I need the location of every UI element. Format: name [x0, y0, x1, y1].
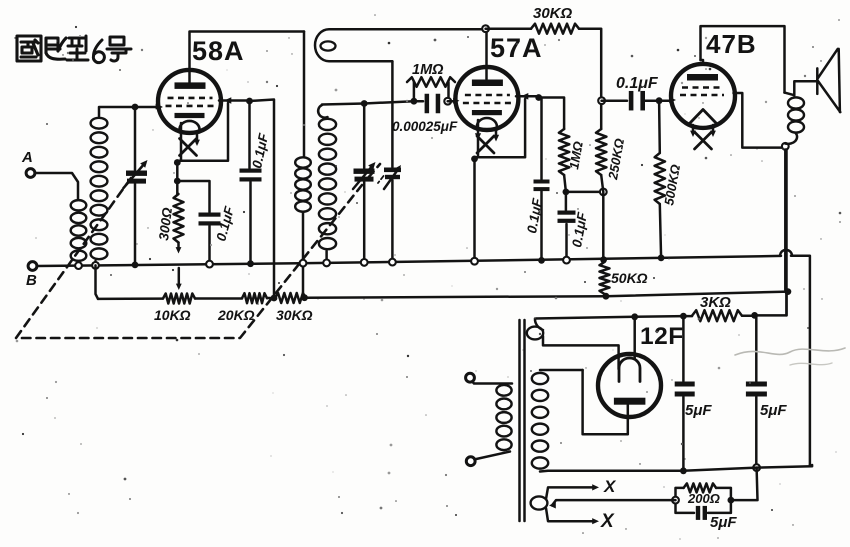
svg-text:B: B: [26, 272, 37, 289]
node 250K bottom: [600, 189, 607, 196]
capacitor 5μF first: [675, 316, 695, 471]
node divider screen: [271, 295, 278, 302]
label 0.00025μF: [392, 119, 458, 134]
resistor 20KΩ: [242, 293, 267, 303]
capacitor 0.1μF cathode: [177, 181, 220, 262]
svg-text:200Ω: 200Ω: [687, 491, 720, 506]
svg-text:12F: 12F: [640, 323, 684, 350]
resistor 10KΩ: [163, 294, 195, 304]
transformer HV secondary: [532, 370, 583, 472]
transformer core: [520, 320, 525, 521]
node divider B+: [785, 288, 792, 295]
57A suppressor box: [475, 99, 526, 157]
node divider 50K: [603, 293, 610, 300]
node filter1: [680, 313, 687, 320]
label 47B: [706, 29, 757, 59]
wire top line: [486, 27, 531, 30]
wire IFT sec top: [322, 104, 364, 105]
wire speaker down: [784, 150, 787, 291]
speaker coil: [785, 93, 805, 144]
bus hop: [780, 250, 792, 256]
node bus ift sec: [323, 260, 330, 267]
trimmer capacitor: [378, 62, 401, 261]
terminal A: [21, 149, 35, 177]
58A plate lead: [190, 32, 305, 83]
node 47B grid: [656, 97, 663, 104]
wire Bminus: [548, 465, 812, 471]
wire RC to 250K bottom: [566, 191, 603, 194]
wire load bottom: [564, 175, 566, 192]
svg-text:3KΩ: 3KΩ: [700, 294, 731, 311]
label 30KΩ div: [276, 307, 313, 323]
57A screen lead: [516, 93, 537, 100]
label 47B box: [701, 26, 785, 93]
node grid leak right: [444, 98, 451, 105]
capacitor 0.00025μF: [425, 94, 441, 114]
svg-text:X: X: [603, 477, 617, 496]
faint pencil squiggle: [735, 348, 845, 365]
label 0.1μF cathode: [213, 204, 237, 243]
node 58A screen: [246, 98, 253, 105]
node bus screen bypass: [247, 260, 254, 267]
node 57A cathode: [471, 156, 478, 163]
node speaker coil: [782, 143, 789, 150]
divider wire: [98, 292, 788, 299]
node bus det cap: [538, 257, 545, 264]
svg-text:20KΩ: 20KΩ: [217, 307, 255, 323]
node ant tuning junction: [132, 104, 139, 111]
node AF takeoff: [598, 97, 605, 104]
47B filament X: [690, 125, 716, 149]
node RC junction: [563, 189, 570, 196]
node 58A cathode branch: [174, 178, 181, 185]
speaker horn: [794, 49, 840, 112]
label 50KΩ: [611, 270, 648, 286]
svg-text:10KΩ: 10KΩ: [154, 307, 191, 323]
resistor 500KΩ: [655, 101, 665, 258]
node filter2: [751, 312, 758, 319]
node grid leak left: [411, 98, 418, 105]
antenna coil secondary: [91, 107, 133, 266]
node bus 50K: [600, 256, 607, 263]
node bus ift pri: [300, 260, 307, 267]
node Bminus cap2: [753, 464, 760, 471]
terminal AC2: [466, 457, 475, 466]
node bus af cap: [563, 257, 570, 264]
58A screen lead: [219, 97, 247, 104]
svg-text:50KΩ: 50KΩ: [611, 270, 648, 286]
node 12F fil: [631, 313, 638, 320]
label plate load: [566, 140, 586, 170]
node bus ant sec: [92, 262, 99, 269]
47B plate lead: [701, 60, 704, 64]
svg-text:X: X: [600, 511, 615, 532]
label 57A: [490, 33, 543, 63]
resistor 250KΩ: [596, 129, 606, 259]
58A cathode lead: [177, 123, 181, 181]
label 300Ω: [156, 206, 175, 241]
title 國民型6号: [17, 36, 131, 63]
label 5μF first: [685, 402, 712, 419]
resistor 50KΩ: [600, 262, 610, 294]
wire 58A screen to divider: [250, 100, 275, 298]
label 250KΩ: [605, 137, 627, 181]
svg-text:58A: 58A: [192, 36, 245, 66]
resistor 30KΩ top: [531, 24, 579, 34]
bus wire: [37, 256, 810, 465]
node bus ant pri: [75, 262, 82, 269]
tube 58A: [158, 70, 221, 133]
capacitor 5μF second: [746, 316, 767, 468]
label 200Ω: [687, 491, 720, 506]
wire Bplus line: [635, 315, 692, 318]
58A cathode X: [180, 133, 200, 156]
57A cathode X: [475, 128, 499, 153]
antenna coil primary: [71, 200, 87, 265]
svg-text:0.00025μF: 0.00025μF: [392, 119, 458, 134]
wire to 47B grid: [659, 97, 676, 103]
variable capacitor VC1: [124, 107, 148, 263]
label 3KΩ: [700, 294, 731, 311]
node 58A cathode box: [174, 159, 181, 166]
wire 3K right: [742, 314, 755, 317]
label X heater1: [603, 477, 617, 496]
node bus cath bypass: [206, 261, 213, 268]
label 58A: [192, 36, 245, 66]
dashed gang line: [16, 164, 380, 338]
svg-text:A: A: [21, 149, 33, 166]
label 5μF bias: [710, 514, 737, 531]
label 12F: [640, 323, 684, 350]
label 1MΩ: [412, 62, 444, 78]
IFT primary: [295, 32, 311, 298]
58A grid arrow left: [157, 104, 163, 110]
svg-text:5μF: 5μF: [760, 402, 787, 419]
wire A to antenna coil: [35, 173, 78, 199]
capacitor 0.1μF coupling: [602, 91, 656, 111]
label 0.1μF det plate: [524, 197, 545, 235]
label 500KΩ: [661, 163, 683, 206]
node divider ift: [301, 294, 308, 301]
svg-text:47B: 47B: [706, 29, 757, 59]
node 57A plate top: [482, 25, 489, 32]
svg-text:30KΩ: 30KΩ: [276, 307, 313, 323]
svg-text:1MΩ: 1MΩ: [412, 62, 444, 78]
wire plate to load resistor: [539, 98, 564, 130]
node Bminus cap1: [680, 467, 687, 474]
terminal B: [26, 262, 37, 289]
resistor 1MΩ: [407, 77, 455, 101]
tube 57A: [455, 67, 518, 130]
coupling link loop: [315, 29, 486, 61]
svg-text:0.1μF: 0.1μF: [616, 75, 659, 92]
svg-text:5μF: 5μF: [710, 514, 737, 531]
wire 30K to corner: [579, 29, 601, 129]
label 10KΩ: [154, 307, 191, 323]
wire grid cap to 57A: [448, 98, 460, 104]
capacitor 0.1μF screen: [240, 101, 262, 261]
node IFT tuning junction: [361, 100, 368, 107]
58A suppressor box: [177, 103, 228, 161]
wire grid line to 58A: [135, 104, 162, 110]
wire bias left arrow: [549, 500, 676, 508]
12F plate circuit: [583, 370, 628, 434]
transformer primary: [470, 379, 512, 460]
tube 47B: [671, 64, 735, 128]
resistor 300Ω: [174, 181, 184, 254]
svg-text:57A: 57A: [490, 33, 543, 63]
resistor 3KΩ: [692, 310, 742, 321]
bias network 200Ω 5μF: [676, 483, 731, 520]
label 30KΩ top: [533, 5, 573, 22]
node bus 57A cath: [471, 258, 478, 265]
label 20KΩ: [217, 307, 255, 323]
label 5μF second: [760, 402, 787, 419]
node bus 500K: [658, 255, 665, 262]
12F filament feed right: [633, 317, 636, 359]
label X heater2: [600, 511, 615, 532]
47B plate out: [734, 93, 784, 148]
node bias right: [728, 497, 735, 504]
terminal AC1: [466, 373, 475, 382]
capacitor 0.1μF det plate: [534, 98, 550, 260]
58A bias tap arrow: [176, 268, 182, 290]
rectifier filament winding: [527, 317, 635, 369]
label 0.1μF screen: [249, 131, 271, 169]
wire bias right up: [731, 468, 758, 501]
57A cathode lead: [475, 120, 479, 260]
capacitor 0.1μF AF: [558, 192, 576, 260]
wire B+ down: [785, 150, 788, 316]
wire sec to divider: [96, 265, 99, 299]
svg-text:30KΩ: 30KΩ: [533, 5, 573, 22]
wire to grid cap: [364, 101, 423, 103]
wire filter2 to B+: [755, 292, 787, 316]
node bus vc1: [132, 262, 139, 269]
node bus vc2: [361, 259, 368, 266]
node bus trimmer: [389, 259, 396, 266]
variable capacitor VC2: [353, 104, 376, 262]
node 57A plate junction: [535, 94, 542, 101]
resistor 30KΩ div: [275, 293, 306, 303]
label 0.1μF coupling: [616, 75, 659, 92]
terminal bias left: [672, 497, 679, 504]
IFT secondary: [318, 105, 336, 262]
57A plate lead: [485, 31, 488, 79]
label 0.1μF AF: [569, 211, 590, 249]
svg-text:5μF: 5μF: [685, 402, 712, 419]
resistor plate load 1MΩ: [559, 129, 569, 175]
tube 12F: [598, 354, 661, 417]
heater winding: [531, 484, 599, 524]
